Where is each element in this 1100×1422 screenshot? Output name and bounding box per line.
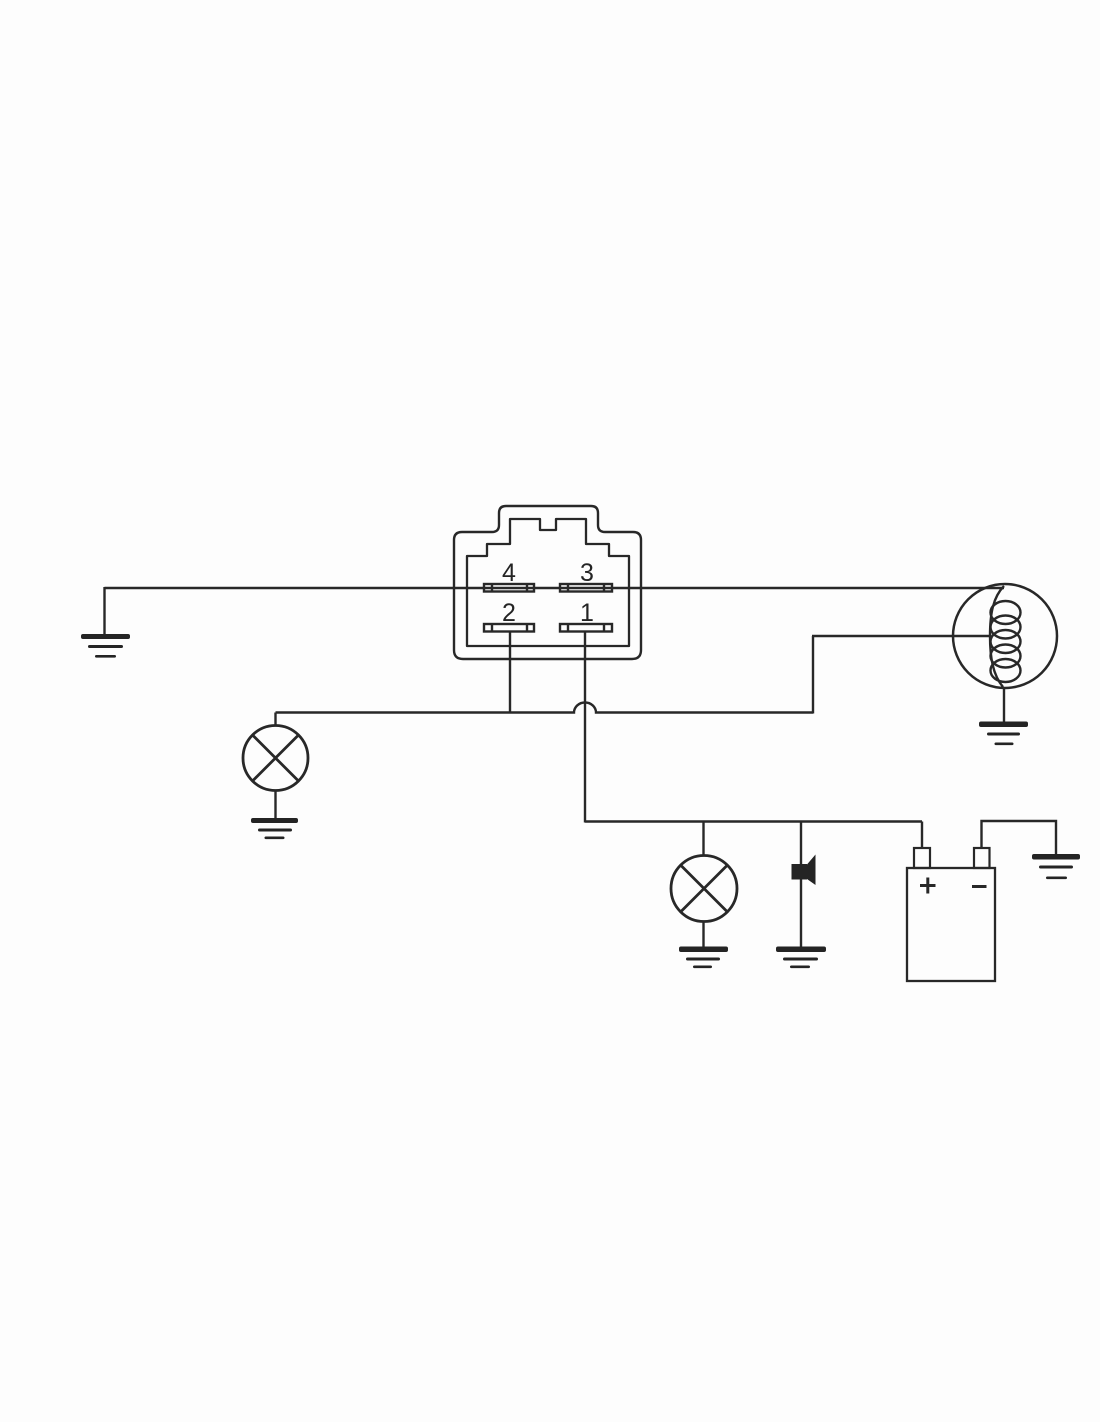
- wire: net from ground G1 through pins 4-3 to flasher: [105, 587, 1005, 589]
- pin 3: [560, 584, 612, 592]
- battery GB1 body: [907, 868, 995, 981]
- ground G1: [81, 634, 130, 658]
- pin 4: [484, 584, 534, 592]
- wire: pin 1 drop to bottom bus: [584, 632, 586, 823]
- wire: battery negative to ground G6: [982, 821, 1057, 855]
- flasher unit B1 body: [953, 584, 1057, 688]
- lamp L1 bottom stub: [274, 791, 276, 819]
- wire: flasher feed: [812, 635, 990, 637]
- connector body inner shell: [467, 519, 629, 646]
- lamp L1: [243, 726, 308, 791]
- pin 4 label: [502, 559, 516, 587]
- ground G6: [1032, 854, 1080, 879]
- lamp L1 top stub: [274, 713, 276, 727]
- ground G4: [679, 947, 728, 969]
- wire: lamp L1 net with hop over pin 1 drop: [276, 703, 814, 713]
- lamp L2: [671, 856, 737, 922]
- pin 1: [560, 624, 612, 632]
- ground G5: [776, 947, 826, 969]
- flasher unit B1 coil: [990, 586, 1021, 687]
- wire: buzzer drop: [800, 822, 802, 947]
- svg-text:4: 4: [502, 559, 516, 587]
- svg-text:2: 2: [502, 599, 516, 627]
- wire: riser to flasher feed: [812, 636, 814, 714]
- battery GB1 positive terminal: [914, 848, 930, 868]
- wire: battery positive lead: [921, 822, 923, 849]
- battery GB1 plus mark: [920, 878, 936, 894]
- battery GB1 minus mark: [972, 885, 987, 888]
- pin 2 label: [502, 599, 516, 627]
- wire: pin 2 drop to lamp net: [509, 632, 511, 714]
- pin 3 label: [580, 559, 594, 587]
- wire: ground G1 riser: [103, 587, 105, 635]
- buzzer LS1: [792, 855, 816, 886]
- ground G3: [979, 722, 1028, 746]
- svg-text:3: 3: [580, 559, 594, 587]
- wire: lamp L2 drop: [702, 822, 704, 856]
- battery GB1 negative terminal: [974, 848, 990, 868]
- wire: flasher ground stub: [1003, 688, 1005, 722]
- wire: bottom bus pin1 to battery positive: [585, 820, 922, 822]
- ground G2: [251, 818, 298, 839]
- connector body outer shell: [454, 506, 641, 659]
- lamp L2 bottom stub: [702, 922, 704, 948]
- svg-text:1: 1: [580, 599, 594, 627]
- pin 2: [484, 624, 534, 632]
- pin 1 label: [580, 599, 594, 627]
